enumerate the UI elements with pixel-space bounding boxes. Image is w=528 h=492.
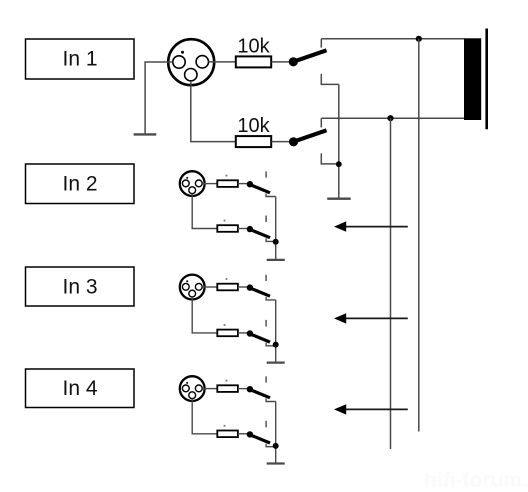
resistor R2b (10k) bbox=[217, 220, 238, 232]
output transducer plate bbox=[485, 29, 488, 130]
switch S4b pole bbox=[247, 431, 253, 437]
resistor R4b (10k) bbox=[217, 425, 238, 437]
XLR connector J1 (In 1) bbox=[168, 39, 214, 85]
wire In 1 pin1 to ground bbox=[145, 62, 173, 134]
switch S2a upper contact stub bbox=[265, 171, 267, 177]
svg-text:In 1: In 1 bbox=[62, 47, 97, 70]
wire R3a to switch S3a bbox=[238, 286, 248, 288]
XLR connector J4 (In 4) bbox=[180, 376, 205, 401]
label box In 2 bbox=[26, 164, 135, 204]
resistor R2a (10k) bbox=[217, 175, 238, 187]
switch S1b upper contact stub bbox=[320, 118, 322, 127]
label box In 4 bbox=[26, 369, 135, 408]
svg-text:In 3: In 3 bbox=[62, 275, 97, 298]
wire R2b to switch S2b bbox=[238, 228, 248, 230]
switch S4b upper contact stub bbox=[265, 421, 267, 428]
switch S2a pole bbox=[247, 181, 253, 187]
ground In 3 bbox=[267, 361, 285, 363]
svg-text:hifi-forum.de: hifi-forum.de bbox=[424, 469, 528, 492]
switch S2a lower contact bbox=[266, 194, 276, 197]
wire R1b to switch S1b bbox=[272, 141, 290, 143]
svg-text:In 4: In 4 bbox=[62, 377, 97, 400]
switch S3a pole bbox=[247, 284, 253, 290]
svg-text:10k: 10k bbox=[237, 115, 270, 137]
ground In 1 input bbox=[134, 133, 157, 135]
wire In 3 mute rail down bbox=[275, 300, 277, 363]
wire In 2 mute rail down bbox=[275, 197, 277, 260]
switch S1a lower contact bbox=[321, 74, 339, 85]
switch S3a lever bbox=[251, 288, 271, 296]
switch S4a upper contact stub bbox=[265, 376, 267, 382]
wire output bus L bbox=[321, 38, 464, 40]
output transducer bar bbox=[464, 38, 481, 120]
ground In 1 mute rail bbox=[327, 197, 351, 199]
switch S2b lever bbox=[251, 230, 271, 238]
arrow feed In 4 bbox=[334, 404, 408, 414]
ground In 4 bbox=[267, 462, 285, 464]
switch S3b lower contact bbox=[266, 343, 276, 346]
switch S3a upper contact stub bbox=[265, 275, 267, 281]
junction bus L bbox=[416, 36, 422, 42]
switch S1a lever bbox=[295, 50, 327, 61]
wire In 1 pin3 down bbox=[191, 81, 236, 142]
switch S4a pole bbox=[247, 386, 253, 392]
switch S3a lower contact bbox=[266, 297, 276, 300]
switch S3b upper contact stub bbox=[265, 320, 267, 327]
junction bus R bbox=[387, 115, 393, 121]
junction In 3 mute rail bbox=[273, 342, 279, 348]
bus L vertical bbox=[418, 39, 420, 432]
wire In 4 mute rail down bbox=[275, 402, 277, 464]
switch S1a pole bbox=[289, 57, 298, 66]
wire In 4 pin3 down bbox=[192, 399, 217, 434]
label box In 3 bbox=[26, 267, 135, 306]
wire R4b to switch S4b bbox=[238, 433, 248, 435]
XLR connector J3 (In 3) bbox=[180, 275, 205, 300]
XLR connector J2 (In 2) bbox=[180, 171, 205, 196]
wire In 3 pin2 to R3a bbox=[202, 286, 217, 288]
switch S2b upper contact stub bbox=[265, 216, 267, 223]
switch S4b lower contact bbox=[266, 444, 276, 447]
junction In 1 ground rail bbox=[336, 161, 342, 167]
switch S2b pole bbox=[247, 226, 253, 232]
wire In 3 pin3 down bbox=[192, 297, 217, 333]
ground In 2 bbox=[267, 259, 285, 261]
switch S2b lower contact bbox=[266, 238, 276, 241]
switch S1b lever bbox=[295, 130, 327, 141]
switch S2a lever bbox=[251, 185, 271, 193]
resistor R1a 10k bbox=[236, 36, 271, 68]
wire In 1 pin2 to R1a bbox=[209, 61, 236, 63]
resistor R4a (10k) bbox=[217, 380, 238, 392]
wire output bus R bbox=[321, 117, 464, 119]
resistor R1b 10k bbox=[236, 115, 271, 147]
switch S3b lever bbox=[251, 334, 271, 342]
resistor R3a (10k) bbox=[217, 278, 238, 290]
switch S4b lever bbox=[251, 435, 271, 443]
junction In 4 mute rail bbox=[273, 443, 279, 449]
svg-text:10k: 10k bbox=[237, 36, 270, 58]
wire R2a to switch S2a bbox=[238, 183, 248, 185]
svg-text:In 2: In 2 bbox=[62, 173, 97, 196]
label box In 1 bbox=[26, 39, 135, 79]
switch S4a lower contact bbox=[266, 399, 276, 402]
switch S3b pole bbox=[247, 330, 253, 336]
wire In 2 pin3 down bbox=[192, 194, 217, 229]
switch S4a lever bbox=[251, 390, 271, 398]
junction In 2 mute rail bbox=[273, 239, 279, 245]
wire In 1 ground rail bbox=[338, 84, 340, 198]
switch S1b lower contact bbox=[321, 153, 339, 164]
arrow feed In 3 bbox=[334, 313, 408, 323]
arrow feed In 2 bbox=[334, 221, 408, 231]
wire In 4 pin2 to R4a bbox=[202, 388, 217, 390]
wire R1a to switch S1a bbox=[272, 61, 290, 63]
wire R4a to switch S4a bbox=[238, 388, 248, 390]
switch S1b pole bbox=[289, 137, 298, 146]
wire R3b to switch S3b bbox=[238, 332, 248, 334]
switch S1a upper contact stub bbox=[320, 39, 322, 48]
bus R vertical bbox=[390, 118, 392, 449]
resistor R3b (10k) bbox=[217, 324, 238, 336]
wire In 2 pin2 to R2a bbox=[202, 183, 217, 185]
